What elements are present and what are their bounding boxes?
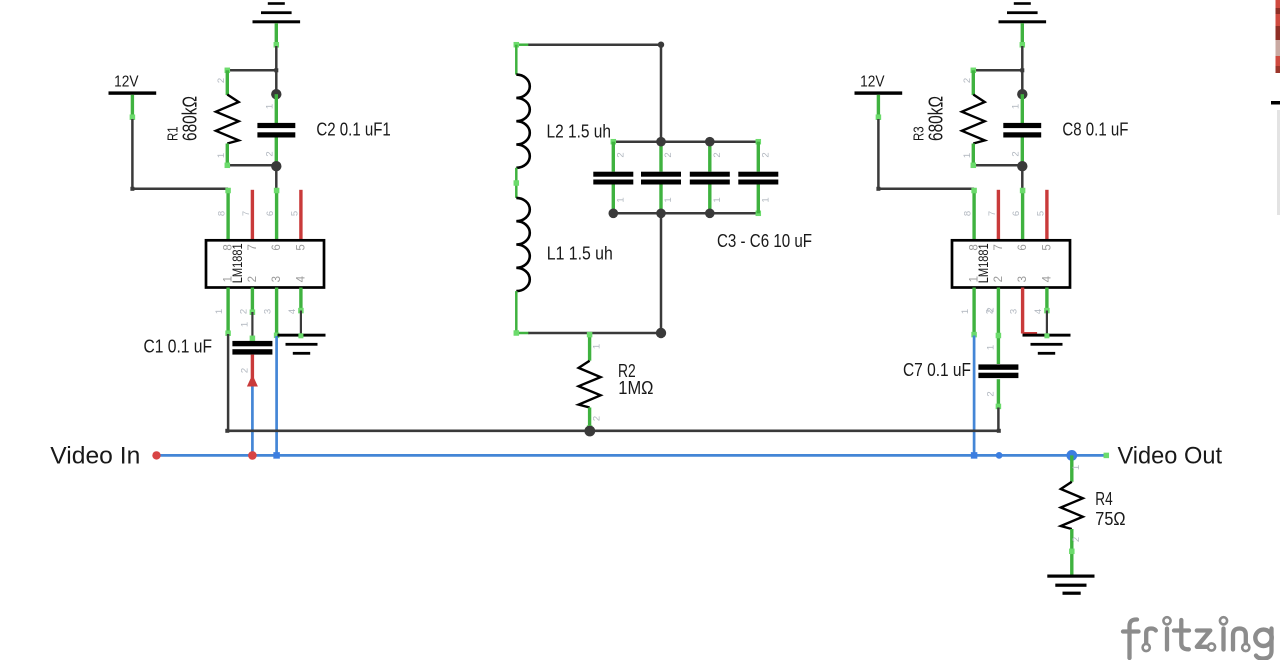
svg-text:1: 1 <box>239 322 250 327</box>
svg-text:5: 5 <box>1035 211 1046 216</box>
svg-text:2: 2 <box>264 151 275 156</box>
svg-text:2: 2 <box>238 309 249 314</box>
svg-text:Video In: Video In <box>50 443 140 470</box>
svg-text:75Ω: 75Ω <box>1095 509 1125 529</box>
svg-text:12V: 12V <box>860 74 885 91</box>
svg-text:1: 1 <box>1071 465 1082 470</box>
svg-text:6: 6 <box>265 211 276 216</box>
svg-text:7: 7 <box>241 211 252 216</box>
svg-text:1: 1 <box>264 104 275 109</box>
svg-text:2: 2 <box>1071 537 1082 542</box>
svg-text:1: 1 <box>1010 104 1021 109</box>
svg-text:680kΩ: 680kΩ <box>925 96 947 141</box>
svg-text:2: 2 <box>1010 151 1021 156</box>
svg-text:2: 2 <box>591 416 602 421</box>
svg-text:2: 2 <box>760 152 771 157</box>
svg-text:2: 2 <box>216 78 227 83</box>
svg-text:C7 0.1 uF: C7 0.1 uF <box>903 360 971 380</box>
svg-text:2: 2 <box>993 276 1005 282</box>
svg-text:1: 1 <box>615 197 626 202</box>
svg-text:6: 6 <box>1017 244 1029 250</box>
svg-text:3: 3 <box>1017 276 1029 282</box>
svg-text:2: 2 <box>962 78 973 83</box>
svg-text:1: 1 <box>760 197 771 202</box>
svg-text:LM1881: LM1881 <box>230 243 245 283</box>
svg-text:6: 6 <box>1011 211 1022 216</box>
svg-text:4: 4 <box>1033 309 1044 314</box>
svg-text:Video Out: Video Out <box>1118 443 1223 470</box>
svg-text:12V: 12V <box>114 74 139 91</box>
svg-text:5: 5 <box>289 211 300 216</box>
svg-text:7: 7 <box>247 244 259 250</box>
svg-text:R4: R4 <box>1095 489 1112 509</box>
svg-text:8: 8 <box>217 211 228 216</box>
svg-text:2: 2 <box>247 276 259 282</box>
svg-text:4: 4 <box>287 309 298 314</box>
svg-text:680kΩ: 680kΩ <box>179 96 201 141</box>
svg-text:2: 2 <box>615 152 626 157</box>
svg-text:LM1881: LM1881 <box>976 243 991 283</box>
svg-text:3: 3 <box>271 276 283 282</box>
svg-text:7: 7 <box>993 244 1005 250</box>
svg-text:8: 8 <box>963 211 974 216</box>
svg-text:5: 5 <box>295 244 307 250</box>
svg-text:4: 4 <box>295 275 307 282</box>
svg-text:1MΩ: 1MΩ <box>618 378 653 398</box>
svg-text:L2 1.5 uh: L2 1.5 uh <box>547 121 612 141</box>
svg-text:1: 1 <box>216 153 227 158</box>
svg-text:1: 1 <box>712 197 723 202</box>
svg-text:2: 2 <box>985 307 996 312</box>
svg-text:1: 1 <box>985 345 996 350</box>
svg-text:1: 1 <box>960 309 971 314</box>
svg-text:3: 3 <box>1009 309 1020 314</box>
svg-text:7: 7 <box>987 211 998 216</box>
svg-text:4: 4 <box>1041 275 1053 282</box>
svg-text:2: 2 <box>663 152 674 157</box>
svg-text:2: 2 <box>985 391 996 396</box>
svg-text:1: 1 <box>663 197 674 202</box>
svg-text:C8 0.1 uF: C8 0.1 uF <box>1062 119 1128 139</box>
svg-text:L1 1.5 uh: L1 1.5 uh <box>547 244 613 264</box>
svg-text:1: 1 <box>962 153 973 158</box>
svg-text:C3 - C6 10 uF: C3 - C6 10 uF <box>717 231 812 251</box>
svg-text:1: 1 <box>214 309 225 314</box>
svg-text:1: 1 <box>591 344 602 349</box>
svg-text:5: 5 <box>1041 244 1053 250</box>
svg-text:2: 2 <box>239 368 250 373</box>
svg-text:3: 3 <box>263 309 274 314</box>
svg-text:6: 6 <box>271 244 283 250</box>
svg-text:C2 0.1 uF1: C2 0.1 uF1 <box>316 119 390 139</box>
svg-text:2: 2 <box>712 152 723 157</box>
svg-text:C1 0.1 uF: C1 0.1 uF <box>144 336 213 356</box>
